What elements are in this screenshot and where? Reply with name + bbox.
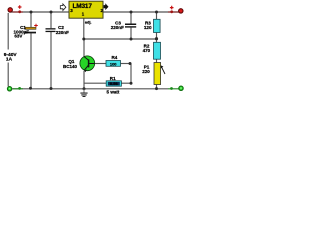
svg-text:R4: R4	[111, 55, 117, 60]
svg-text:1A: 1A	[6, 57, 13, 63]
svg-text:220nF: 220nF	[111, 25, 124, 30]
svg-text:0.56: 0.56	[110, 81, 119, 86]
svg-text:R1: R1	[110, 76, 116, 81]
svg-text:220nF: 220nF	[56, 30, 69, 35]
svg-text:LM317: LM317	[73, 3, 93, 10]
svg-text:BC140: BC140	[63, 64, 78, 69]
svg-text:220: 220	[142, 69, 150, 74]
svg-text:adj.: adj.	[85, 21, 92, 25]
svg-text:100: 100	[110, 61, 117, 66]
svg-text:63V: 63V	[14, 34, 22, 39]
svg-text:5 watt: 5 watt	[107, 89, 120, 94]
svg-text:120: 120	[144, 25, 152, 30]
svg-text:470: 470	[143, 48, 151, 53]
